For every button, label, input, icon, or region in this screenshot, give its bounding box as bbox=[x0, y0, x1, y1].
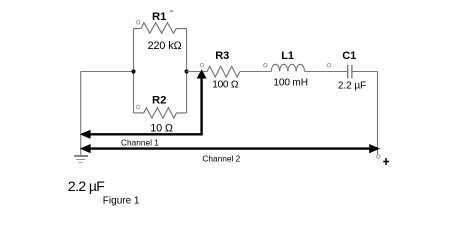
wire: R3 to inductor L1 bbox=[240, 71, 271, 73]
output terminal polarity label + bbox=[383, 158, 389, 165]
svg-text:10 Ω: 10 Ω bbox=[150, 123, 173, 135]
capacitor C1 (two plates) bbox=[327, 63, 352, 78]
resistor R3 (series zigzag) bbox=[200, 64, 240, 77]
svg-text:R3: R3 bbox=[215, 50, 229, 62]
wire: L1 to capacitor C1 bbox=[305, 71, 348, 73]
resistor R1 (top branch zigzag) bbox=[134, 21, 187, 34]
svg-text:Channel 1: Channel 1 bbox=[121, 137, 159, 147]
inductor L1 (4 humps) bbox=[263, 64, 304, 72]
svg-text:R2: R2 bbox=[152, 95, 166, 107]
resistor R1 stray tick mark bbox=[170, 10, 172, 12]
wire: main left horizontal from source rail to node A bbox=[81, 71, 134, 73]
svg-text:100 Ω: 100 Ω bbox=[212, 80, 238, 91]
svg-text:2.2 µF: 2.2 µF bbox=[68, 178, 104, 194]
output terminal circle (bottom right) bbox=[377, 155, 381, 159]
svg-text:Channel 2: Channel 2 bbox=[202, 153, 240, 163]
wire: parallel loop right edge bbox=[186, 29, 188, 113]
svg-text:2.2 µF: 2.2 µF bbox=[338, 81, 366, 92]
Channel 2 measurement arrow (double headed across bottom) bbox=[80, 144, 380, 153]
wire: right vertical rail down to output terminal bbox=[377, 72, 379, 155]
wire: parallel loop left edge bbox=[133, 29, 135, 113]
svg-text:R1: R1 bbox=[152, 11, 166, 23]
node A: junction dot left bbox=[131, 69, 135, 73]
svg-text:220 kΩ: 220 kΩ bbox=[148, 40, 182, 52]
svg-text:100 mH: 100 mH bbox=[273, 77, 307, 88]
svg-text:Figure 1: Figure 1 bbox=[103, 196, 140, 207]
Channel 1 probe arrow (thick, up into node B wire, down and left to rail) bbox=[80, 69, 207, 139]
svg-text:L1: L1 bbox=[281, 50, 294, 62]
resistor R2 (bottom branch zigzag) bbox=[134, 105, 187, 118]
wire: C1 to right rail bbox=[352, 71, 378, 73]
svg-text:C1: C1 bbox=[342, 50, 356, 62]
wire: left vertical rail down to ground bbox=[80, 72, 82, 156]
wire: node B to resistor R3 bbox=[187, 71, 207, 73]
node B: junction dot right bbox=[185, 69, 189, 73]
ground symbol bbox=[74, 156, 88, 163]
